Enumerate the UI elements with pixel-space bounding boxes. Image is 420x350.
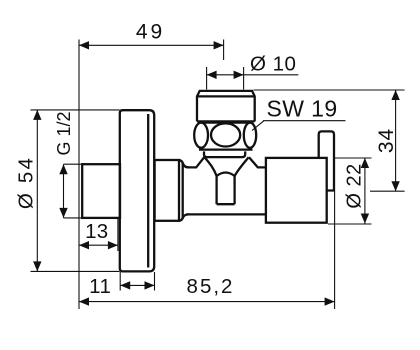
bonnet / handle cylinder xyxy=(266,158,327,223)
svg-text:Ø 22: Ø 22 xyxy=(343,163,365,208)
cone bowl xyxy=(205,157,249,176)
dimension 85,2 xyxy=(79,192,335,310)
svg-text:SW 19: SW 19 xyxy=(267,96,338,122)
dimension 49 xyxy=(79,21,224,60)
dimension diameter 54 xyxy=(15,110,120,272)
valve body xyxy=(187,157,266,214)
svg-text:Ø 10: Ø 10 xyxy=(250,53,296,76)
lever knob xyxy=(319,131,334,190)
neck below cone xyxy=(217,173,235,205)
dimension 34 xyxy=(254,90,405,191)
dimension G 1/2 xyxy=(54,111,83,217)
svg-text:Ø 54: Ø 54 xyxy=(15,156,38,209)
SW 19 label with leader xyxy=(252,96,346,131)
wall flange xyxy=(120,110,154,271)
dimension diameter 22 xyxy=(328,158,372,224)
svg-text:85,2: 85,2 xyxy=(187,275,235,298)
hex nut SW 19 xyxy=(194,123,256,150)
svg-text:11: 11 xyxy=(89,275,111,298)
dimension 11 xyxy=(89,272,154,298)
collar behind flange xyxy=(155,160,189,221)
svg-text:13: 13 xyxy=(85,220,108,243)
svg-text:34: 34 xyxy=(375,128,398,153)
dimension 13 xyxy=(79,219,118,251)
dimension diameter 10 xyxy=(207,53,299,90)
wall flange inner edge xyxy=(147,114,149,268)
svg-text:49: 49 xyxy=(136,21,165,44)
cap of compression fitting xyxy=(196,91,255,122)
svg-text:G 1/2: G 1/2 xyxy=(54,111,74,155)
ring washer under nut xyxy=(204,151,245,157)
thread G 1/2 stub xyxy=(82,164,120,218)
wall reference plane extension line xyxy=(78,40,80,310)
